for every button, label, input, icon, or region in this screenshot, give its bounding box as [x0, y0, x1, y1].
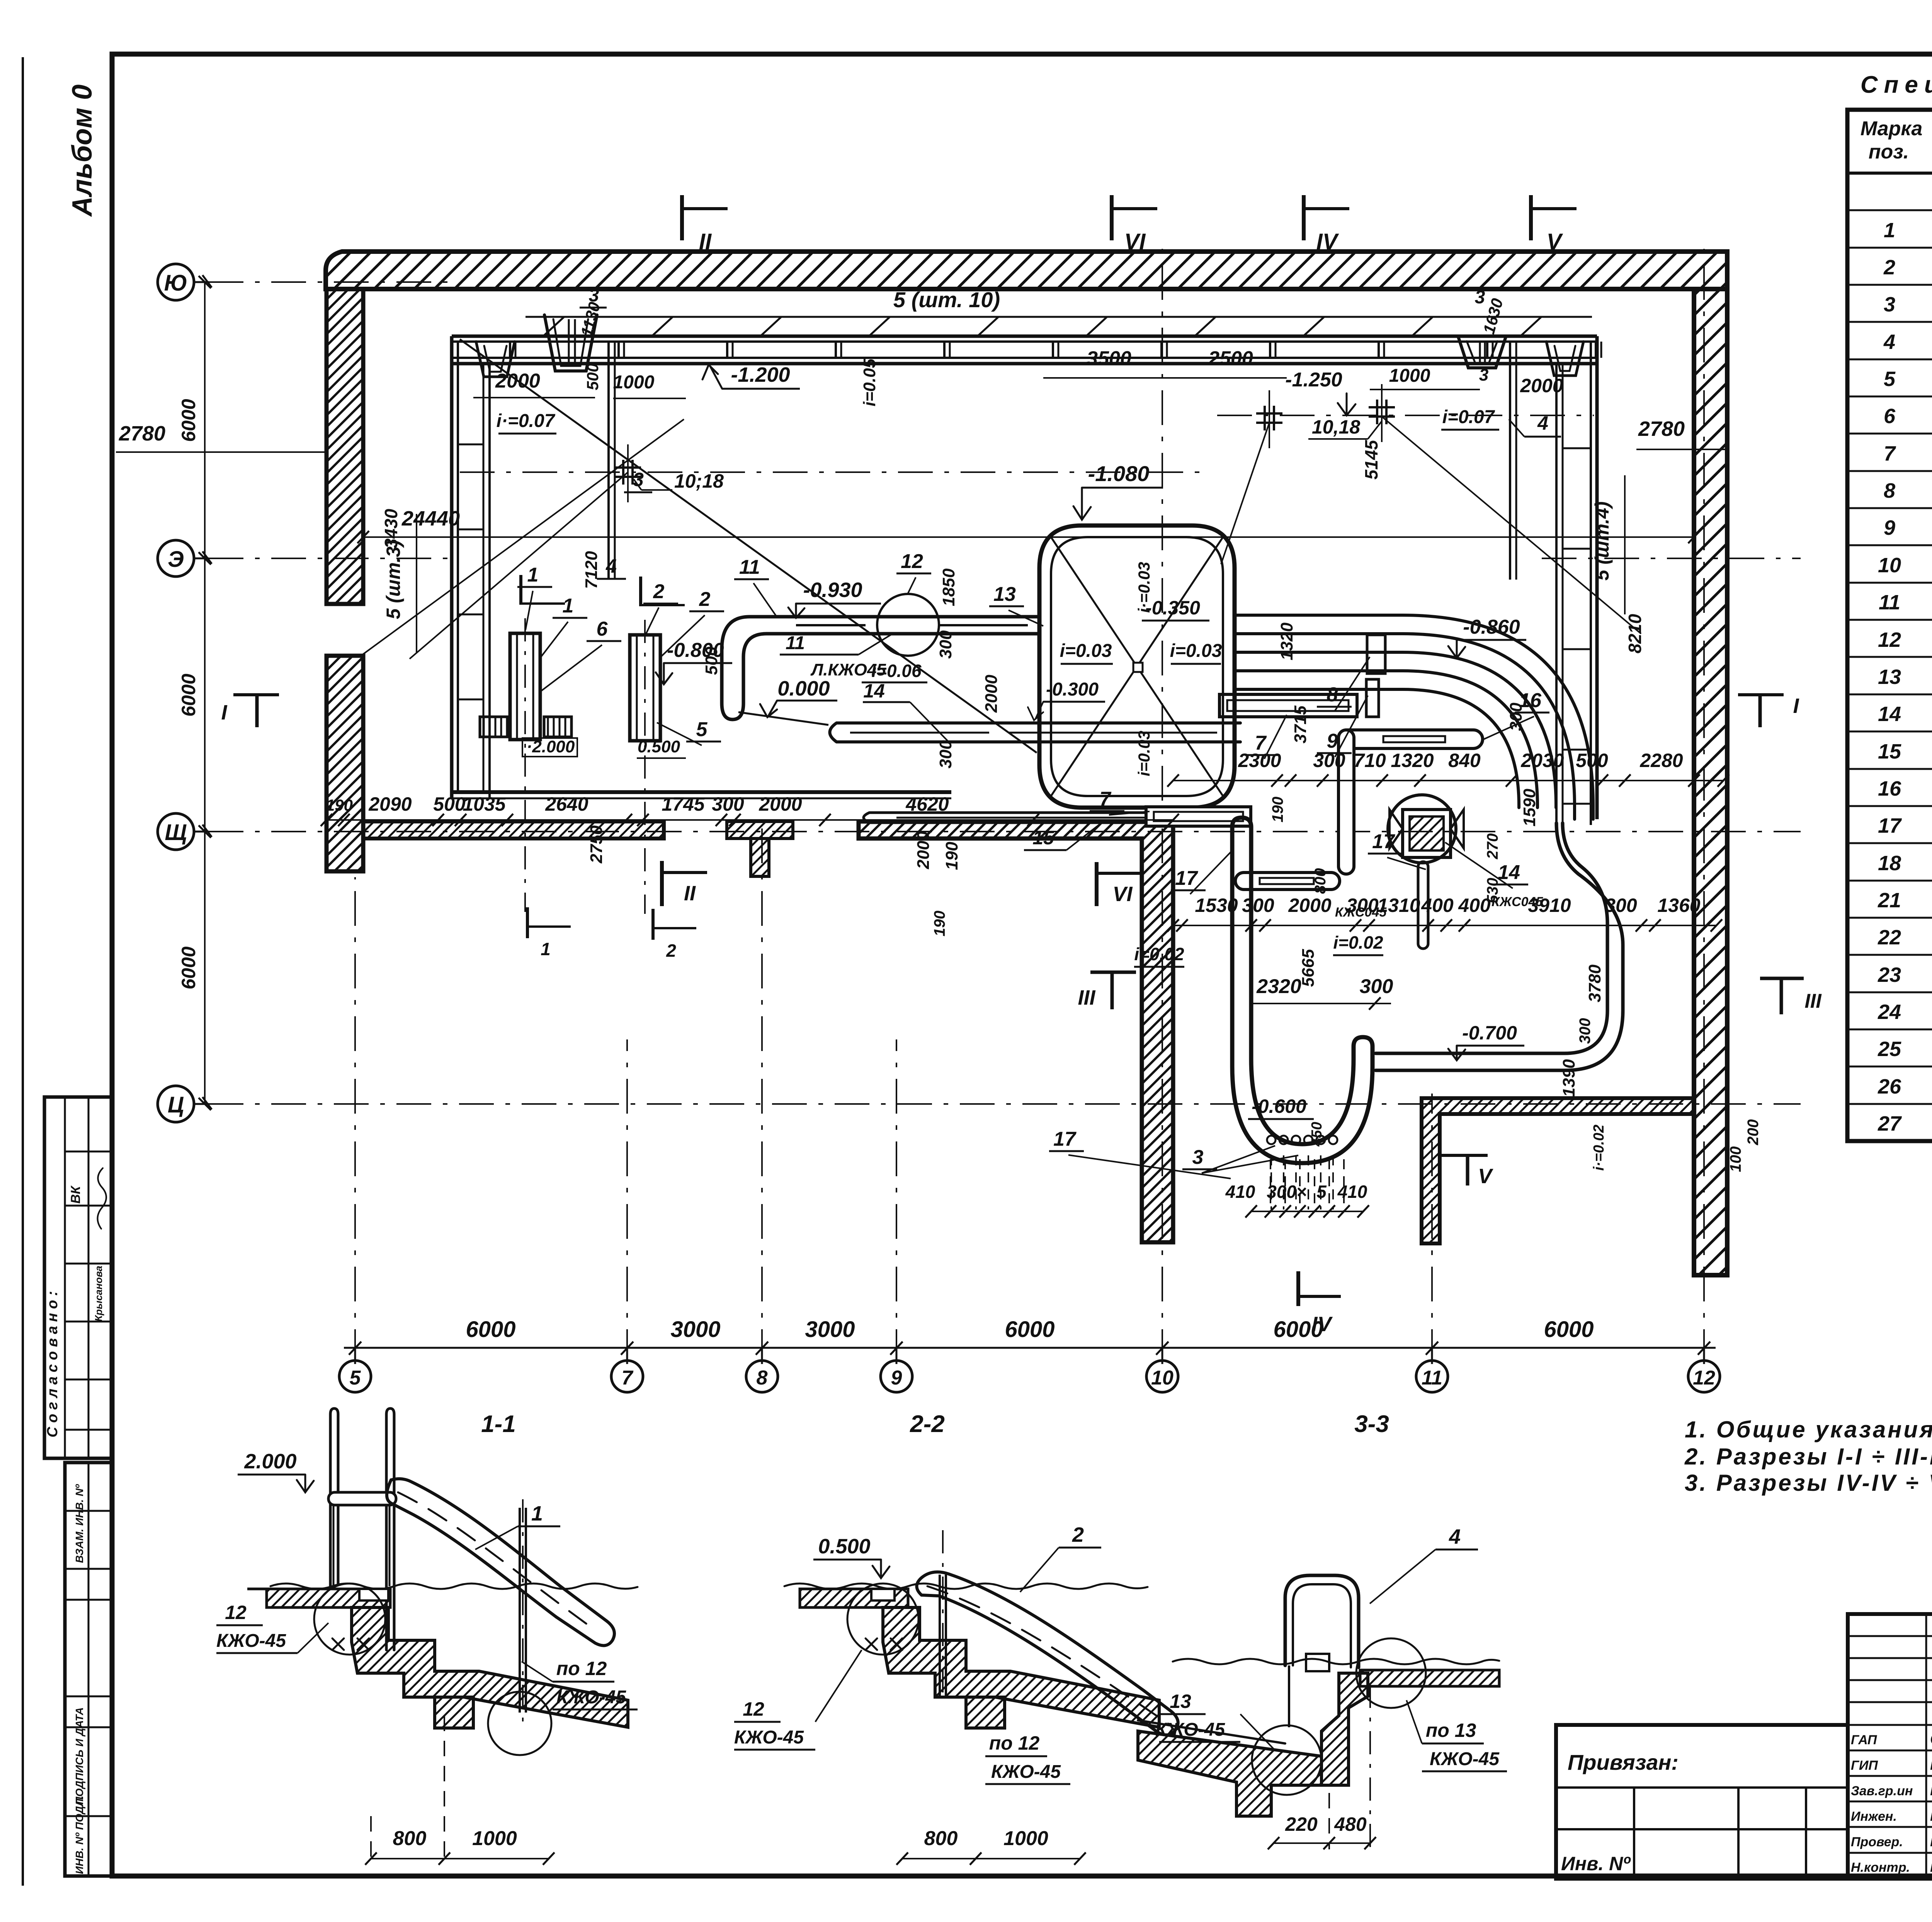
lift 1 steps right: [544, 717, 571, 737]
svg-text:11: 11: [1879, 591, 1900, 614]
svg-text:2000: 2000: [759, 793, 802, 815]
shт labels rotated: [383, 475, 1625, 653]
svg-text:7: 7: [622, 1367, 634, 1389]
section cut marks 1 and 2 at lifts: [521, 575, 696, 961]
svg-text:0.000: 0.000: [777, 677, 830, 700]
handrail 14 long rail: [738, 712, 1240, 742]
svg-text:3: 3: [1192, 1146, 1204, 1169]
pool floor edge bottom-left: [452, 792, 951, 798]
section 1-1 slide flume: [387, 1479, 614, 1646]
svg-text:2280: 2280: [1639, 750, 1683, 771]
T-column at axis 8: [727, 822, 793, 876]
main dimension chain right y2020: [1167, 750, 1729, 787]
svg-text:1320: 1320: [1277, 623, 1296, 660]
svg-text:Коледина: Коледина: [1930, 1756, 1932, 1773]
svg-text:·2.000: ·2.000: [527, 737, 575, 756]
section 2-2 detail circles and mast: [847, 1530, 946, 1697]
svg-text:9: 9: [891, 1367, 902, 1389]
right exterior wall (hatched): [1694, 289, 1727, 1275]
svg-text:КЖО-45: КЖО-45: [991, 1762, 1061, 1782]
svg-text:по 12: по 12: [556, 1658, 607, 1679]
svg-text:-0.930: -0.930: [803, 578, 862, 602]
svg-text:1000: 1000: [613, 372, 655, 393]
svg-text:6000: 6000: [178, 399, 199, 442]
slide landing square platform: [1039, 526, 1235, 808]
right gutter with grates: [1556, 336, 1597, 825]
svg-text:Корнеев: Корнеев: [1930, 1833, 1932, 1850]
svg-text:5: 5: [350, 1367, 361, 1389]
svg-text:12: 12: [1693, 1367, 1715, 1389]
level marks and slope labels: [522, 461, 1607, 1171]
svg-text:ПОДПИСЬ И ДАТА: ПОДПИСЬ И ДАТА: [73, 1707, 85, 1805]
svg-text:2: 2: [653, 580, 665, 603]
svg-text:8: 8: [1884, 479, 1895, 502]
svg-text:VI: VI: [1112, 883, 1133, 906]
svg-text:ВЗАМ. ИНВ. Nº: ВЗАМ. ИНВ. Nº: [73, 1484, 85, 1563]
svg-text:0.500: 0.500: [638, 737, 680, 756]
left 6000 axis dims: [178, 276, 211, 1110]
svg-text:2320: 2320: [1256, 975, 1301, 998]
svg-text:i=0.02: i=0.02: [1134, 944, 1184, 964]
svg-text:3500: 3500: [1087, 347, 1131, 370]
long leader diagonals: [359, 339, 1641, 753]
svg-text:300: 300: [712, 793, 744, 815]
svg-text:1035: 1035: [463, 793, 506, 815]
svg-text:21: 21: [1878, 889, 1901, 912]
svg-text:6000: 6000: [178, 674, 199, 716]
handrail 17 vertical slot: [1418, 862, 1428, 949]
svg-text:Ю: Ю: [164, 270, 187, 296]
svg-text:1: 1: [541, 939, 551, 959]
svg-text:3715: 3715: [1291, 706, 1310, 743]
svg-text:190: 190: [931, 911, 948, 937]
svg-text:450: 450: [1309, 1122, 1325, 1146]
svg-text:II: II: [684, 882, 696, 905]
svg-text:2000: 2000: [1520, 375, 1563, 396]
svg-text:15: 15: [1878, 740, 1901, 763]
svg-text:КЖО-45: КЖО-45: [216, 1631, 286, 1651]
svg-text:i=0.06: i=0.06: [871, 661, 922, 681]
project binding box: [1556, 1725, 1848, 1879]
svg-text:i·=0.03: i·=0.03: [1135, 562, 1153, 613]
album label: [67, 85, 98, 217]
svg-text:2750: 2750: [587, 825, 606, 864]
svg-text:Зав.гр.ин: Зав.гр.ин: [1851, 1784, 1913, 1798]
svg-text:800: 800: [1312, 868, 1329, 894]
svg-text:2: 2: [1072, 1523, 1084, 1546]
svg-text:4: 4: [605, 555, 617, 577]
svg-text:1000: 1000: [1389, 366, 1430, 386]
svg-text:IV: IV: [1311, 1313, 1333, 1336]
svg-text:1745: 1745: [662, 793, 705, 815]
svg-text:2640: 2640: [545, 793, 588, 815]
svg-text:200: 200: [1745, 1119, 1762, 1146]
svg-text:300: 300: [1605, 895, 1637, 916]
svg-text:2-2: 2-2: [910, 1411, 945, 1437]
svg-text:1: 1: [531, 1502, 543, 1525]
svg-text:3: 3: [633, 469, 644, 490]
svg-text:по 12: по 12: [989, 1732, 1040, 1754]
svg-text:5: 5: [1884, 367, 1896, 391]
section marks bottom and sides: [221, 694, 1822, 1336]
section 1-1 title: [481, 1411, 516, 1437]
handrail 7 upper rail: [1219, 694, 1357, 717]
svg-text:400: 400: [1421, 895, 1454, 916]
section 3-3 wall and floor: [1138, 1673, 1368, 1816]
svg-text:11: 11: [739, 556, 760, 578]
svg-text:24: 24: [1878, 1000, 1901, 1024]
svg-text:-1.200: -1.200: [731, 363, 790, 386]
svg-text:500: 500: [583, 363, 602, 390]
svg-text:1850: 1850: [939, 568, 958, 606]
svg-text:23: 23: [1878, 963, 1901, 987]
svg-text:300: 300: [1577, 1018, 1594, 1044]
svg-text:3: 3: [1884, 293, 1895, 316]
svg-text:8: 8: [757, 1367, 768, 1389]
dimension line 2320/300: [1251, 975, 1393, 1010]
svg-text:270: 270: [1484, 833, 1501, 860]
svg-text:2000: 2000: [982, 675, 1001, 713]
svg-text:i=0.03: i=0.03: [1060, 641, 1112, 661]
svg-text:1: 1: [563, 595, 574, 617]
svg-text:1: 1: [1884, 219, 1895, 242]
svg-text:410: 410: [1337, 1182, 1367, 1202]
svg-text:6000: 6000: [178, 946, 199, 989]
svg-text:Инв. Nº: Инв. Nº: [1561, 1853, 1631, 1874]
svg-text:6: 6: [597, 618, 608, 640]
pool divider line left zone: [609, 342, 1516, 580]
svg-text:IV: IV: [1316, 229, 1339, 254]
left wall upper segment: [327, 289, 363, 604]
svg-text:480: 480: [1334, 1813, 1367, 1835]
svg-text:5: 5: [696, 718, 708, 741]
U-shaped lane channel: [1232, 818, 1372, 1163]
top exterior wall (hatched): [326, 252, 1727, 289]
svg-text:2780: 2780: [119, 422, 165, 445]
gutter end basket left: [476, 342, 515, 377]
svg-text:КЖС045: КЖС045: [1335, 905, 1387, 920]
dims 2780 and 24440: [116, 417, 1727, 653]
svg-text:1320: 1320: [1391, 750, 1434, 771]
svg-text:5665: 5665: [1299, 949, 1318, 987]
svg-text:КЖО-45: КЖО-45: [1430, 1749, 1500, 1769]
svg-text:С о г л а с о в а н о :: С о г л а с о в а н о :: [44, 1291, 61, 1437]
section 1-1 slide posts: [328, 1408, 396, 1650]
general notes: [1684, 1417, 1932, 1496]
grid bottom dimension line: [344, 1317, 1716, 1364]
svg-text:300: 300: [936, 630, 955, 659]
svg-text:КЖО-45: КЖО-45: [556, 1687, 626, 1708]
svg-text:3. Разрезы IV-IV ÷ VI-VI см.: 3. Разрезы IV-IV ÷ VI-VI см. лист КЖО-43: [1685, 1470, 1932, 1496]
svg-text:-0.600: -0.600: [1252, 1095, 1306, 1117]
svg-text:500: 500: [1576, 750, 1608, 771]
handrail 9: [1366, 679, 1379, 717]
detail circle 12: [877, 594, 939, 656]
svg-text:190: 190: [1269, 797, 1286, 823]
handrail 8: [1367, 635, 1385, 674]
svg-text:Марка: Марка: [1861, 117, 1923, 140]
section 2-2 title: [910, 1411, 945, 1437]
svg-text:5145: 5145: [1361, 439, 1381, 480]
svg-text:7: 7: [1884, 442, 1896, 465]
approval block (Soglasovano): [44, 1097, 112, 1458]
svg-text:6: 6: [1884, 405, 1896, 428]
svg-text:V: V: [1478, 1165, 1493, 1188]
svg-text:500: 500: [433, 793, 466, 815]
svg-text:11: 11: [786, 633, 805, 653]
svg-text:800: 800: [924, 1827, 958, 1850]
svg-text:1530: 1530: [1195, 895, 1238, 916]
cascade trough left: [544, 315, 597, 371]
svg-text:2. Разрезы I-I ÷ III-III см.: 2. Разрезы I-I ÷ III-III см. лист КЖО-42: [1684, 1444, 1932, 1470]
svg-text:Крысанова: Крысанова: [93, 1266, 104, 1322]
svg-text:1390: 1390: [1560, 1059, 1578, 1097]
anchor marks 10;18: [615, 384, 1395, 502]
svg-text:V: V: [1547, 229, 1563, 254]
svg-text:190: 190: [326, 796, 353, 814]
svg-text:300×: 300×: [1267, 1182, 1307, 1202]
svg-text:ГИП: ГИП: [1851, 1758, 1878, 1773]
handrail 16 gamma tube: [1338, 730, 1483, 874]
svg-text:i=0.03: i=0.03: [1170, 641, 1222, 661]
svg-text:7120: 7120: [582, 551, 601, 589]
svg-text:17: 17: [1372, 830, 1395, 853]
svg-text:0.500: 0.500: [818, 1535, 870, 1558]
svg-text:26: 26: [1878, 1075, 1901, 1098]
svg-text:2000: 2000: [1288, 895, 1331, 916]
left wall lower segment: [327, 656, 363, 871]
pool centerline west: [460, 471, 1209, 473]
svg-text:1-1: 1-1: [481, 1411, 516, 1437]
svg-text:-1.080: -1.080: [1088, 461, 1150, 486]
section 1-1 water line: [270, 1584, 638, 1589]
svg-text:1000: 1000: [472, 1827, 517, 1850]
svg-text:1: 1: [527, 564, 539, 586]
svg-text:12: 12: [225, 1602, 247, 1623]
pool centerline east: [1217, 415, 1594, 416]
svg-text:КЖС045: КЖС045: [1492, 895, 1543, 909]
svg-text:2500: 2500: [1208, 347, 1253, 370]
part labels with leaders: [517, 550, 1549, 1179]
svg-text:по 13: по 13: [1426, 1720, 1476, 1741]
section 2-2 labels: [734, 1523, 1101, 1865]
handrail 7 lower rail: [1146, 807, 1251, 826]
svg-text:8: 8: [1327, 684, 1338, 706]
svg-text:Морозова: Морозова: [1930, 1782, 1932, 1799]
svg-text:11: 11: [1422, 1367, 1442, 1389]
svg-text:i·=0.07: i·=0.07: [497, 411, 556, 431]
svg-text:Н.контр.: Н.контр.: [1851, 1860, 1910, 1875]
svg-text:1130: 1130: [577, 300, 604, 338]
section marks top: [682, 195, 1577, 254]
svg-text:10: 10: [1151, 1367, 1173, 1389]
svg-text:410: 410: [1225, 1182, 1255, 1202]
svg-text:1360: 1360: [1657, 895, 1700, 916]
slide flume straight run: [773, 617, 1039, 634]
section 1-1 stepped floor: [352, 1607, 628, 1728]
svg-text:III: III: [1078, 986, 1095, 1009]
svg-text:13: 13: [1170, 1691, 1191, 1712]
svg-text:7: 7: [1255, 732, 1267, 754]
svg-text:10,18: 10,18: [1312, 416, 1360, 438]
section 3-3 water line: [1173, 1659, 1499, 1664]
section 1-1 deck slab: [247, 1589, 390, 1607]
section 3-3 labels: [1155, 1525, 1507, 1849]
svg-text:4: 4: [1449, 1525, 1461, 1548]
svg-text:КЖО-45: КЖО-45: [1155, 1720, 1225, 1740]
dimension chain lower right y2395: [1167, 895, 1722, 932]
svg-text:3780: 3780: [1585, 964, 1604, 1002]
svg-text:18: 18: [1878, 852, 1901, 875]
svg-text:6000: 6000: [466, 1317, 515, 1342]
grid axis dash-dot lines vertical: [355, 243, 1704, 1364]
svg-text:i=0.02: i=0.02: [1333, 932, 1383, 952]
svg-text:2030: 2030: [1520, 750, 1564, 771]
svg-text:Инжен.: Инжен.: [1851, 1809, 1897, 1824]
svg-text:II: II: [699, 229, 712, 254]
U channel drain circles: [1267, 1136, 1337, 1209]
svg-text:1000: 1000: [1003, 1827, 1048, 1850]
svg-text:ВК: ВК: [68, 1185, 83, 1204]
svg-text:5 (шт. 10): 5 (шт. 10): [893, 287, 1000, 312]
dimension chain under U channel: [1225, 1159, 1369, 1218]
specification table rows: [1878, 182, 1932, 1135]
svg-text:i=0.05: i=0.05: [860, 359, 879, 407]
svg-text:КЖО-45: КЖО-45: [734, 1727, 804, 1748]
svg-text:16: 16: [1878, 777, 1901, 800]
svg-text:-0.860: -0.860: [1463, 616, 1520, 638]
svg-text:Спецификация элементов ванны: Спецификация элементов ванны: [1861, 71, 1932, 98]
svg-text:Ц: Ц: [168, 1092, 184, 1117]
svg-text:3: 3: [1475, 287, 1485, 308]
left gutter with grates: [452, 336, 490, 798]
section 1-1 labels: [216, 1450, 638, 1865]
svg-text:I: I: [1793, 694, 1799, 718]
section 2-2 deck slab: [784, 1584, 1148, 1607]
svg-text:Альбом 0: Альбом 0: [67, 85, 98, 217]
svg-text:-0.350: -0.350: [1145, 597, 1200, 619]
section 2-2 slide flume: [917, 1572, 1178, 1735]
svg-text:2.000: 2.000: [244, 1450, 296, 1473]
svg-text:6000: 6000: [1005, 1317, 1054, 1342]
svg-text:5: 5: [1316, 1182, 1327, 1202]
svg-text:300: 300: [1242, 895, 1274, 916]
lift 1 steps left: [480, 717, 507, 737]
svg-text:2: 2: [1883, 256, 1895, 279]
svg-text:ГАП: ГАП: [1851, 1733, 1878, 1747]
svg-text:840: 840: [1448, 750, 1481, 771]
section 1-1 detail circles: [314, 1584, 551, 1755]
svg-text:4: 4: [1537, 412, 1548, 434]
svg-text:2: 2: [666, 941, 676, 961]
svg-text:710: 710: [1354, 750, 1386, 771]
svg-text:Смирнов: Смирнов: [1930, 1731, 1932, 1748]
section 2-2 stepped floor: [883, 1607, 1159, 1728]
svg-text:Шепилова: Шепилова: [1930, 1807, 1932, 1824]
svg-text:Привязан:: Привязан:: [1568, 1750, 1679, 1774]
handrail 15 long rail: [864, 813, 1229, 823]
grid bottom bubbles: [339, 1361, 1720, 1392]
bottom-right L wall: [1422, 1098, 1694, 1243]
slide flume lanes curving to splash pool: [1235, 615, 1593, 819]
svg-text:Щ: Щ: [165, 820, 187, 845]
section 2-2 level mark: [813, 1535, 889, 1578]
svg-text:300: 300: [1360, 975, 1393, 998]
svg-text:22: 22: [1878, 926, 1901, 949]
svg-text:Э: Э: [168, 547, 184, 572]
svg-text:12: 12: [1878, 628, 1901, 651]
lift shaft 1: [510, 618, 540, 750]
svg-text:17: 17: [1878, 814, 1902, 837]
svg-text:10: 10: [1878, 554, 1901, 577]
svg-text:7: 7: [1100, 788, 1112, 810]
svg-text:100: 100: [1727, 1146, 1744, 1172]
svg-text:3: 3: [1479, 366, 1488, 384]
svg-text:2000: 2000: [914, 831, 933, 869]
svg-text:2090: 2090: [368, 793, 412, 815]
section 3-3 right deck: [1360, 1670, 1499, 1686]
svg-text:14: 14: [863, 680, 885, 702]
specification table header: [1861, 117, 1932, 165]
handrail rail with left cap: [1235, 873, 1340, 890]
svg-text:4620: 4620: [905, 793, 949, 815]
svg-text:i=0.07: i=0.07: [1442, 407, 1495, 427]
staff signature table: [1848, 1614, 1932, 1879]
svg-text:-0.700: -0.700: [1462, 1022, 1517, 1044]
svg-text:17: 17: [1053, 1128, 1077, 1150]
specification table grid: [1847, 110, 1932, 1141]
svg-text:Провер.: Провер.: [1851, 1835, 1903, 1849]
svg-text:поз.: поз.: [1869, 141, 1909, 163]
specification table title: [1861, 71, 1932, 98]
grid axis bubbles left: [158, 264, 212, 1122]
top dimension annotations: [473, 285, 1563, 579]
svg-text:12: 12: [743, 1698, 764, 1720]
section 3-3 title: [1354, 1411, 1389, 1437]
svg-text:ИНВ. Nº ПОДЛ.: ИНВ. Nº ПОДЛ.: [73, 1796, 85, 1874]
svg-text:220: 220: [1285, 1813, 1318, 1835]
section 1-1 mast: [520, 1499, 526, 1721]
svg-text:8210: 8210: [1625, 614, 1645, 653]
svg-text:190: 190: [942, 842, 961, 870]
svg-text:25: 25: [1878, 1038, 1901, 1061]
lift shaft 2: [630, 620, 660, 751]
right gutter to lower basin sweep: [1376, 823, 1623, 1070]
svg-text:2000: 2000: [495, 370, 540, 392]
svg-text:III: III: [1804, 990, 1822, 1012]
svg-text:5 (шт.3): 5 (шт.3): [383, 540, 404, 619]
svg-text:9: 9: [1327, 730, 1338, 752]
svg-text:Маргулия: Маргулия: [1930, 1858, 1932, 1875]
axis Shch wall east band with leg on axis 10: [859, 822, 1173, 1242]
svg-text:17: 17: [1175, 867, 1198, 890]
svg-text:VI: VI: [1124, 229, 1146, 254]
gutter end basket right: [1546, 342, 1583, 376]
cascade trough right: [1458, 337, 1506, 368]
svg-text:13: 13: [993, 583, 1016, 606]
svg-text:-1.250: -1.250: [1285, 369, 1342, 391]
svg-text:1590: 1590: [1520, 789, 1539, 827]
svg-text:3000: 3000: [805, 1317, 855, 1342]
svg-text:3000: 3000: [670, 1317, 720, 1342]
svg-text:27: 27: [1878, 1112, 1902, 1135]
svg-text:i·=0.02: i·=0.02: [1591, 1124, 1607, 1170]
svg-text:12: 12: [901, 550, 923, 573]
svg-text:3-3: 3-3: [1354, 1411, 1389, 1437]
svg-text:6000: 6000: [1544, 1317, 1594, 1342]
svg-text:10;18: 10;18: [674, 470, 724, 492]
svg-text:13: 13: [1878, 665, 1901, 689]
